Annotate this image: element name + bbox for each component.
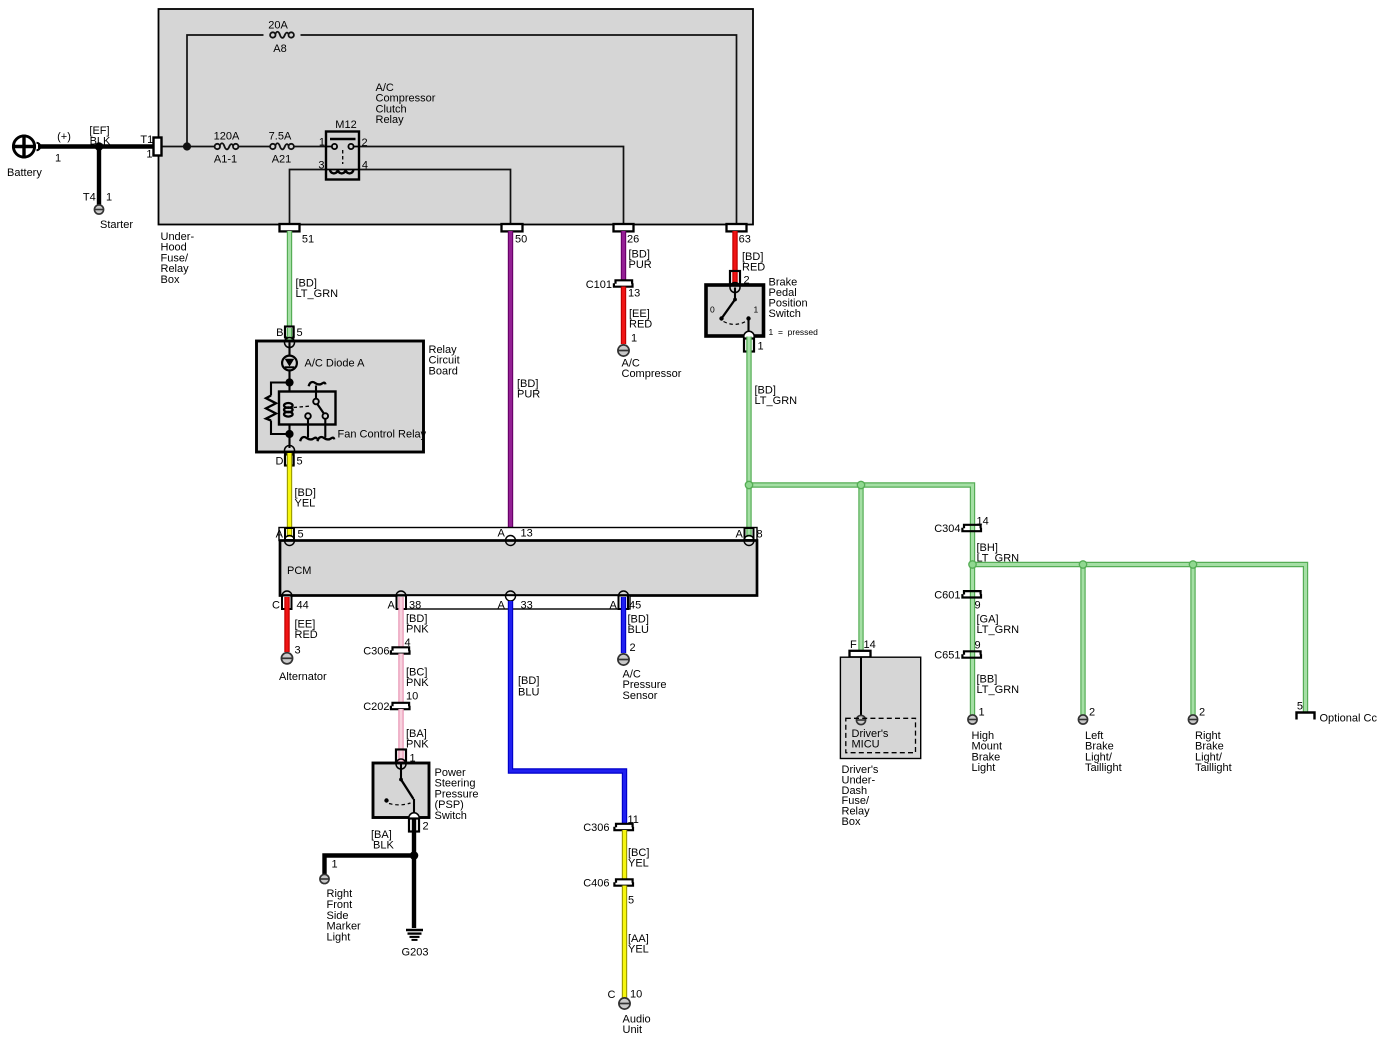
connector C101	[586, 279, 641, 300]
pin C44 (PCM bottom)	[272, 591, 309, 612]
svg-text:5: 5	[1297, 701, 1303, 713]
svg-text:Battery: Battery	[7, 167, 42, 179]
svg-text:8: 8	[757, 529, 763, 541]
pin A13 (PCM top)	[498, 528, 533, 546]
connector B5	[276, 327, 302, 341]
svg-text:PNK: PNK	[406, 624, 429, 636]
svg-text:Unit: Unit	[623, 1024, 643, 1036]
svg-text:A: A	[610, 600, 618, 612]
svg-text:C601: C601	[934, 589, 960, 601]
svg-text:D: D	[276, 456, 284, 468]
svg-text:5: 5	[628, 895, 634, 907]
High Mount Brake Light	[968, 707, 1002, 775]
svg-text:B: B	[276, 327, 283, 339]
PCM connector strip bottom	[397, 596, 630, 610]
PCM connector strip top	[279, 528, 757, 541]
svg-text:YEL: YEL	[295, 498, 316, 510]
A/C Pressure Sensor	[618, 654, 667, 702]
svg-text:Switch: Switch	[435, 810, 467, 822]
svg-text:RED: RED	[742, 262, 765, 274]
connector PSP pin 2	[409, 813, 429, 833]
connector 63	[727, 224, 751, 245]
connector C651	[934, 640, 981, 662]
svg-text:PNK: PNK	[406, 739, 429, 751]
svg-text:2: 2	[1199, 707, 1205, 719]
svg-text:5: 5	[298, 529, 304, 541]
svg-text:50: 50	[515, 233, 527, 245]
node B5 entry circle	[285, 338, 295, 348]
wire 20A branch (battery feed to fuse A8 and terminal 63)	[187, 35, 737, 225]
svg-text:3: 3	[295, 645, 301, 657]
wire [EF] BLK battery to T1	[38, 125, 154, 148]
label A/C Compressor Clutch Relay	[376, 82, 436, 126]
Power Steering Pressure (PSP) Switch	[373, 759, 479, 822]
svg-text:A21: A21	[272, 154, 292, 166]
connector F14	[850, 639, 876, 657]
svg-text:C406: C406	[583, 878, 609, 890]
pin A38 (PCM bottom)	[388, 591, 422, 612]
svg-text:1: 1	[754, 305, 759, 315]
Brake Pedal Position Switch	[706, 277, 818, 338]
svg-text:9: 9	[975, 600, 981, 612]
wire relay pin 3 to terminal 51	[290, 170, 327, 226]
connector C306 pin 4	[363, 646, 409, 658]
svg-text:Switch: Switch	[769, 308, 801, 320]
wire [BA] BLK PSP to ground	[371, 829, 414, 928]
svg-text:M12: M12	[335, 119, 356, 131]
fuse A21 7.5A	[269, 131, 294, 166]
svg-text:PUR: PUR	[629, 259, 652, 271]
svg-text:A8: A8	[273, 43, 286, 55]
connector BPP pin 1	[744, 331, 764, 352]
node diode junction top	[285, 378, 293, 386]
svg-text:YEL: YEL	[628, 858, 649, 870]
svg-text:7.5A: 7.5A	[269, 131, 292, 143]
Under-Hood Fuse/Relay Box	[159, 9, 754, 286]
wire [BD] BLU A45 to pressure sensor	[624, 608, 649, 654]
wire [EE] RED C44 to alternator	[287, 608, 318, 657]
PCM	[280, 541, 757, 596]
starter	[83, 191, 133, 231]
battery	[7, 131, 71, 179]
svg-text:1: 1	[319, 137, 325, 149]
wire LT_GRN branch to Driver's MICU	[858, 485, 863, 651]
svg-text:Taillight: Taillight	[1085, 762, 1122, 774]
wire LT_GRN branch to right (brake light feed)	[749, 485, 973, 565]
wire fan relay contact right bottom with break	[318, 419, 335, 441]
svg-text:45: 45	[629, 600, 641, 612]
Optional Connector	[1297, 701, 1378, 725]
svg-text:C306: C306	[363, 646, 389, 658]
Driver's Under-Dash Fuse/Relay Box	[840, 657, 920, 828]
svg-text:YEL: YEL	[628, 944, 649, 956]
relay M12 A/C Compressor Clutch Relay	[318, 119, 368, 180]
svg-text:2: 2	[1089, 707, 1095, 719]
connector 51	[280, 224, 315, 245]
svg-text:Box: Box	[161, 274, 180, 286]
wire branch to marker light	[325, 856, 415, 875]
node green junction right brake	[1189, 561, 1196, 568]
svg-text:A: A	[498, 528, 506, 540]
svg-text:120A: 120A	[214, 131, 240, 143]
svg-text:26: 26	[627, 233, 639, 245]
svg-text:20A: 20A	[268, 20, 288, 32]
svg-text:RED: RED	[629, 319, 652, 331]
svg-text:PUR: PUR	[517, 389, 540, 401]
A/C Compressor	[618, 345, 682, 380]
svg-text:Light: Light	[972, 762, 996, 774]
svg-text:2: 2	[362, 137, 368, 149]
wire [BD] YEL D5 to PCM A5	[290, 465, 316, 537]
svg-text:38: 38	[409, 600, 421, 612]
svg-text:G203: G203	[402, 947, 429, 959]
svg-text:2: 2	[630, 642, 636, 654]
svg-text:Fan Control Relay: Fan Control Relay	[338, 429, 427, 441]
Driver's MICU	[846, 715, 916, 752]
wire [BD] LT_GRN BPP pin 1 down to PCM A8	[749, 350, 797, 537]
node coil junction bottom	[285, 430, 293, 438]
wire [BA] PNK C202 to PSP switch	[401, 709, 429, 751]
svg-text:A: A	[388, 600, 396, 612]
svg-text:LT_GRN: LT_GRN	[755, 395, 798, 407]
svg-text:1 = pressed: 1 = pressed	[769, 327, 819, 337]
node green junction at MICU branch	[857, 481, 864, 488]
wire [BD] PUR terminal 50 to PCM A13	[511, 231, 541, 539]
svg-text:1: 1	[55, 153, 61, 165]
svg-text:5: 5	[297, 456, 303, 468]
svg-text:3: 3	[318, 160, 324, 172]
svg-text:51: 51	[302, 233, 314, 245]
wire fan relay contact left bottom with break	[300, 419, 317, 441]
svg-text:T4: T4	[83, 191, 96, 203]
wire brake light bus horizontal	[973, 565, 1306, 713]
svg-text:4: 4	[362, 159, 368, 171]
Alternator	[279, 653, 327, 683]
svg-text:LT_GRN: LT_GRN	[977, 684, 1020, 696]
wire relay pin 2 to terminal 26	[359, 147, 624, 226]
connector PSP pin 1	[396, 750, 416, 765]
pin A45 (PCM bottom)	[610, 591, 642, 612]
wire inside relay board (vertical)	[288, 343, 290, 456]
svg-text:1: 1	[979, 707, 985, 719]
node black junction	[410, 851, 419, 860]
node battery junction	[95, 142, 104, 151]
connector C306 pin 11	[583, 814, 639, 834]
svg-text:33: 33	[521, 600, 533, 612]
pin A8 (PCM top)	[736, 528, 763, 546]
svg-text:PNK: PNK	[406, 677, 429, 689]
svg-text:11: 11	[628, 814, 639, 826]
fuse A1-1 120A	[214, 131, 240, 166]
svg-text:10: 10	[630, 989, 642, 1001]
wire inside MICU box	[860, 657, 862, 716]
svg-text:13: 13	[521, 528, 533, 540]
svg-text:BLU: BLU	[518, 687, 539, 699]
wire [AA] YEL C406 to audio unit	[625, 886, 649, 998]
wire [BC] PNK C306 to C202	[401, 654, 429, 704]
svg-text:Compressor: Compressor	[622, 368, 682, 380]
connector T1	[140, 134, 161, 160]
wire fan relay switch top with break	[309, 382, 326, 399]
wire [BD] BLU A33 to C306 pin 11	[511, 601, 625, 824]
svg-text:A: A	[498, 600, 506, 612]
svg-text:MICU: MICU	[852, 739, 880, 751]
svg-text:Light: Light	[327, 932, 351, 944]
node green junction at C304 drop	[969, 561, 976, 568]
svg-text:Starter: Starter	[100, 219, 133, 231]
connector BPP pin 2	[730, 271, 750, 287]
svg-text:A: A	[736, 529, 744, 541]
wire [BD] LT_GRN terminal 51 to B5	[290, 231, 339, 330]
Audio Unit	[608, 989, 651, 1037]
node green junction left brake	[1079, 561, 1086, 568]
svg-text:14: 14	[864, 639, 876, 651]
Right Front Side Marker Light	[320, 859, 361, 944]
ground G203	[402, 930, 429, 959]
svg-text:Sensor: Sensor	[623, 690, 658, 702]
wire battery junction to starter	[97, 147, 101, 205]
svg-text:44: 44	[297, 600, 309, 612]
svg-text:A1-1: A1-1	[214, 154, 237, 166]
A/C Diode A	[282, 356, 365, 371]
svg-text:C651: C651	[934, 650, 960, 662]
svg-text:Relay: Relay	[376, 114, 405, 126]
svg-text:LT_GRN: LT_GRN	[296, 288, 339, 300]
Relay Circuit Board	[257, 341, 460, 452]
resistor (parallel with relay coil)	[266, 383, 290, 435]
connector C406	[583, 878, 634, 907]
Right Brake Light/Taillight	[1188, 707, 1231, 775]
node D5 exit circle	[285, 446, 295, 456]
svg-text:C304: C304	[934, 523, 960, 535]
node green junction at BPP drop	[745, 481, 752, 488]
svg-text:C: C	[608, 989, 616, 1001]
svg-text:1: 1	[146, 148, 152, 160]
svg-text:BLU: BLU	[628, 624, 649, 636]
svg-text:1: 1	[332, 859, 338, 871]
svg-text:[BD]: [BD]	[518, 675, 539, 687]
wire [GA]/[BB] LT_GRN to high mount brake light	[973, 565, 1020, 716]
wire relay pin 4 to terminal 50	[359, 170, 511, 226]
svg-text:63: 63	[739, 233, 751, 245]
svg-text:13: 13	[628, 288, 640, 300]
wire main bus from T1 to relay M12 pin 1	[162, 146, 327, 148]
svg-text:BLK: BLK	[373, 840, 394, 852]
wire [EE] RED C101 to A/C compressor	[624, 287, 653, 345]
wire [BD] PNK A38 to C306	[401, 608, 429, 649]
svg-text:Box: Box	[842, 816, 861, 828]
fuse A8 20A	[268, 20, 294, 56]
svg-text:9: 9	[975, 640, 981, 652]
Left Brake Light/Taillight	[1078, 707, 1121, 775]
svg-text:5: 5	[297, 327, 303, 339]
svg-text:A/C Diode A: A/C Diode A	[305, 358, 366, 370]
svg-text:Taillight: Taillight	[1195, 762, 1232, 774]
node T1 junction	[183, 142, 191, 150]
connector 26	[614, 224, 640, 245]
wire to left brake light	[1080, 565, 1085, 716]
svg-text:C202: C202	[363, 701, 389, 713]
svg-text:T1: T1	[140, 134, 153, 146]
svg-text:Board: Board	[429, 365, 458, 377]
svg-text:C306: C306	[583, 822, 609, 834]
svg-text:10: 10	[406, 691, 418, 703]
connector C601	[934, 589, 981, 611]
wire to right brake light	[1190, 565, 1195, 716]
svg-text:A: A	[276, 529, 284, 541]
connector C304	[934, 523, 981, 535]
connector C202	[363, 701, 409, 713]
svg-text:LT_GRN: LT_GRN	[977, 624, 1020, 636]
svg-text:Optional Cc: Optional Cc	[1320, 713, 1378, 725]
wire [BH] LT_GRN C304 down to brake light bus	[977, 516, 1020, 565]
wire [BD] RED terminal 63 to BPP switch	[735, 231, 765, 291]
svg-text:(+): (+)	[57, 131, 71, 143]
svg-text:C101: C101	[586, 279, 612, 291]
connector D5	[276, 453, 303, 468]
svg-text:1: 1	[631, 333, 637, 345]
pin A33 (PCM bottom)	[498, 591, 533, 612]
svg-text:2: 2	[423, 821, 429, 833]
svg-text:RED: RED	[295, 629, 318, 641]
svg-text:F: F	[850, 639, 857, 651]
svg-text:0: 0	[710, 305, 715, 315]
connector 50	[502, 224, 528, 245]
svg-text:1: 1	[758, 341, 764, 353]
wire [BD] PUR terminal 26 to C101	[624, 231, 652, 281]
wire [BC] YEL C306 to C406	[625, 830, 650, 880]
Fan Control Relay	[279, 392, 427, 441]
svg-text:1: 1	[106, 191, 112, 203]
svg-text:Alternator: Alternator	[279, 671, 327, 683]
svg-text:C: C	[272, 600, 280, 612]
pin A5 (PCM top)	[276, 528, 304, 546]
svg-text:PCM: PCM	[287, 565, 311, 577]
